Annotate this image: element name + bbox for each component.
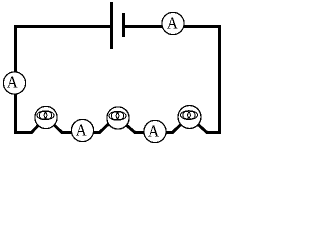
ammeter A2 (left)	[3, 72, 25, 94]
wire: lamp L3 down to bottom-right rail, right vertical, top-right horizontal to battery	[123, 27, 220, 133]
ammeter A4 (bottom right)	[144, 120, 166, 142]
ammeter A3 (bottom left)	[71, 119, 93, 141]
wire: top-left horizontal, left vertical, bottom-left rail, diagonal into lamp L1	[16, 27, 112, 133]
lamp L1	[35, 106, 57, 128]
battery B1 short plate (negative terminal)	[122, 13, 125, 37]
wire: lamp L2 down to rail, stub under ammeter A4, diagonal up into lamp L3	[117, 117, 189, 133]
battery B1 long plate (positive terminal)	[110, 2, 113, 49]
ammeter A1 (top)	[162, 12, 184, 34]
lamp L3	[178, 106, 201, 129]
lamp L2	[107, 107, 129, 129]
wire: lamp L1 down to rail, stub under ammeter A3, diagonal up into lamp L2	[46, 117, 112, 133]
